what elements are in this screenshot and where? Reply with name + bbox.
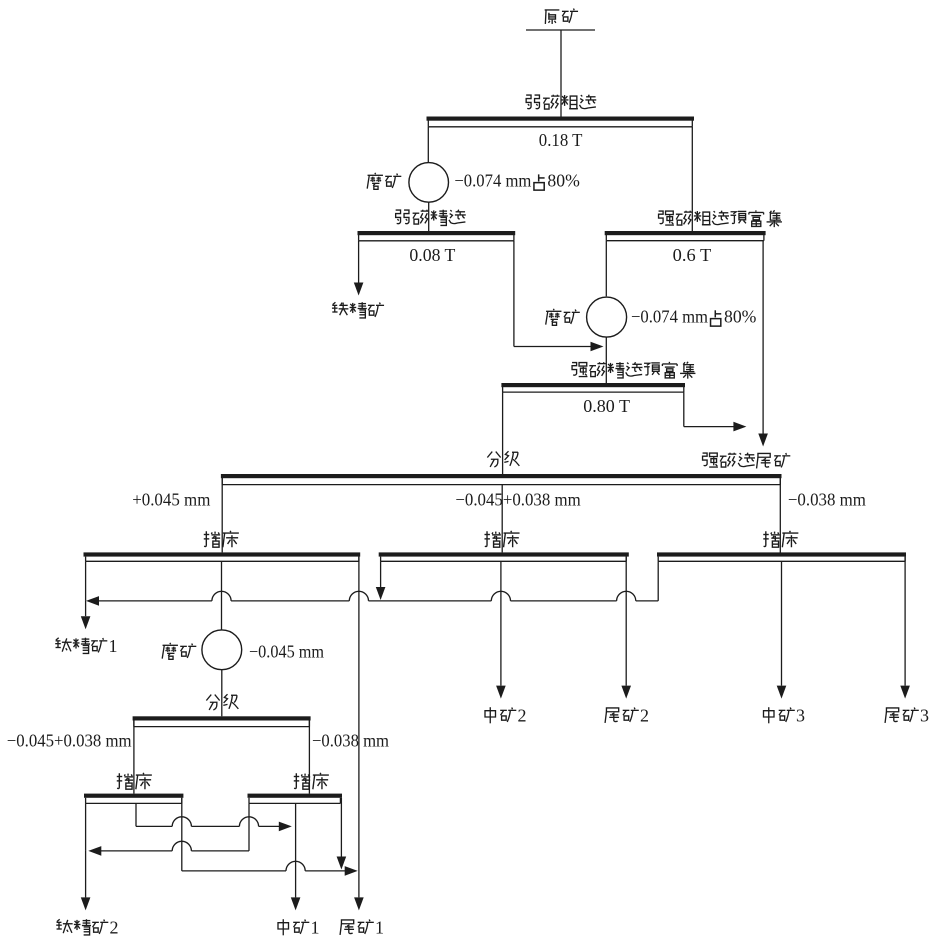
- raw-ore underline: [526, 29, 595, 31]
- svg-text:0.08 T: 0.08 T: [409, 245, 455, 265]
- svg-text:+0.045 mm: +0.045 mm: [132, 490, 210, 510]
- value 0.6 T: [673, 245, 712, 265]
- table T5 bar: [248, 794, 343, 804]
- value 0.80 T: [583, 396, 630, 416]
- wire T2-mid to 中矿2: [496, 561, 506, 698]
- wire T1-mid to mill3: [221, 561, 223, 630]
- wire T2-tail to 尾矿2: [621, 557, 631, 699]
- svg-text:−0.074 mm: −0.074 mm: [631, 307, 708, 327]
- svg-text:3: 3: [796, 706, 805, 726]
- svg-text:−0.045+0.038 mm: −0.045+0.038 mm: [7, 731, 132, 751]
- svg-text:80%: 80%: [724, 307, 756, 327]
- wire concentrate collector: [86, 561, 658, 605]
- node 铁精矿: [332, 302, 384, 318]
- separator 弱磁粗选 bar: [427, 117, 695, 127]
- label 磨矿 M3: [162, 643, 196, 659]
- wire rougher-tail to HIMS-rougher: [691, 127, 693, 231]
- wire HIMS-cleaner-tail join: [684, 392, 747, 431]
- svg-text:1: 1: [375, 918, 384, 938]
- value -0.074mm 80% M2: [631, 307, 756, 327]
- wire classifier fine to table3: [779, 478, 781, 553]
- svg-text:−0.045+0.038 mm: −0.045+0.038 mm: [455, 490, 580, 510]
- svg-text:0.6 T: 0.6 T: [673, 245, 712, 265]
- wire T4-conc down: [85, 803, 87, 851]
- wire T1-conc down: [85, 561, 87, 601]
- label 磨矿 M1: [367, 173, 401, 189]
- wire HIMS-cleaner-conc to classifier: [502, 392, 504, 474]
- wire HIMS-rougher-conc to mill2: [605, 241, 607, 297]
- wire classifier coarse to table1: [221, 478, 223, 552]
- wire mill3 to classifier2: [221, 670, 223, 717]
- separator 分级 bar: [221, 474, 782, 485]
- node 钛精矿1: [55, 636, 117, 656]
- wire HIMS-rougher-tail: [758, 241, 768, 447]
- svg-text:2: 2: [518, 706, 527, 726]
- node 尾矿1: [340, 918, 384, 938]
- svg-text:2: 2: [110, 918, 119, 938]
- label 弱磁精选: [396, 210, 466, 226]
- wire T4-mid to T5-mid: [136, 803, 292, 831]
- wire T1-tail to 尾矿1: [354, 557, 364, 911]
- wire T3-mid to 中矿3: [777, 561, 787, 698]
- label 摇床 T4: [117, 773, 152, 789]
- node 中矿1: [278, 918, 320, 938]
- wire T2-conc join: [376, 561, 386, 600]
- mill M3 circle: [202, 630, 242, 670]
- size +0.045 mm: [132, 490, 210, 510]
- label 强磁粗选预富集: [659, 210, 782, 227]
- separator 强磁精选预富集 bar: [501, 383, 685, 392]
- mill M2 circle: [587, 297, 627, 337]
- wire T3-tail to 尾矿3: [900, 557, 910, 699]
- table T4 bar: [84, 794, 183, 804]
- mill M1 circle: [409, 163, 449, 203]
- wire mill1 to cleaner: [428, 202, 430, 231]
- wire classifier mid to table2: [501, 485, 503, 553]
- table T3 bar: [657, 552, 906, 561]
- separator 强磁粗选预富集 bar: [605, 231, 766, 241]
- wire rougher-conc to mill1: [427, 127, 429, 163]
- label 分级 C1: [487, 451, 519, 467]
- size -0.045+0.038 mm: [455, 490, 580, 510]
- table T2 bar: [379, 552, 629, 561]
- svg-text:−0.038 mm: −0.038 mm: [788, 490, 866, 510]
- svg-text:0.80 T: 0.80 T: [583, 396, 630, 416]
- node 钛精矿2: [56, 918, 118, 938]
- label 摇床 T3: [763, 531, 798, 547]
- separator 分级2 bar: [133, 716, 311, 726]
- wire classifier2 to table5: [308, 720, 310, 793]
- label 磨矿 M2: [546, 309, 580, 325]
- svg-text:−0.038 mm: −0.038 mm: [312, 731, 389, 751]
- svg-text:80%: 80%: [547, 171, 579, 191]
- value 0.08 T: [409, 245, 455, 265]
- svg-text:1: 1: [109, 636, 118, 656]
- wire to 钛精矿1: [81, 601, 91, 629]
- separator 弱磁精选 bar: [358, 231, 516, 241]
- wire to 钛精矿2: [81, 851, 91, 911]
- label 强磁精选预富集: [572, 362, 695, 379]
- svg-text:−0.074 mm: −0.074 mm: [454, 171, 531, 191]
- size -0.038 mm: [788, 490, 866, 510]
- label 摇床 T2: [484, 531, 519, 547]
- table T1 bar: [84, 552, 361, 561]
- node 尾矿3: [885, 706, 929, 726]
- svg-text:−0.045 mm: −0.045 mm: [249, 642, 324, 662]
- size -0.045+0.038 mm C2: [7, 731, 132, 751]
- svg-text:3: 3: [920, 706, 929, 726]
- label 摇床 T1: [204, 531, 239, 547]
- wire T5-mid to 中矿1: [291, 803, 301, 910]
- node 尾矿2: [605, 706, 649, 726]
- node 中矿3: [764, 706, 806, 726]
- wire T5-tail join: [337, 798, 347, 870]
- value 0.18 T: [539, 130, 583, 150]
- label 分级 C2: [206, 694, 238, 710]
- value -0.074mm 80% M1: [454, 171, 579, 191]
- node 中矿2: [485, 706, 527, 726]
- svg-text:1: 1: [311, 918, 320, 938]
- wire cleaner-tail recycle: [514, 241, 604, 351]
- value -0.045 mm M3: [249, 642, 324, 662]
- wire iron-concentrate: [354, 241, 364, 296]
- wire feed raw-ore to rougher: [560, 30, 562, 117]
- wire T5-conc collector: [88, 803, 249, 855]
- size -0.038 mm C2: [312, 731, 389, 751]
- svg-text:0.18 T: 0.18 T: [539, 130, 583, 150]
- svg-text:2: 2: [640, 706, 649, 726]
- wire classifier2 to table4: [133, 720, 135, 793]
- wire T4-tail collector: [182, 798, 358, 876]
- node raw-ore label 原矿: [545, 9, 578, 24]
- label 弱磁粗选: [526, 95, 596, 109]
- label 摇床 T5: [294, 773, 329, 789]
- node 强磁选尾矿: [703, 453, 791, 469]
- wire mill2 to HIMS-cleaner: [605, 337, 607, 383]
